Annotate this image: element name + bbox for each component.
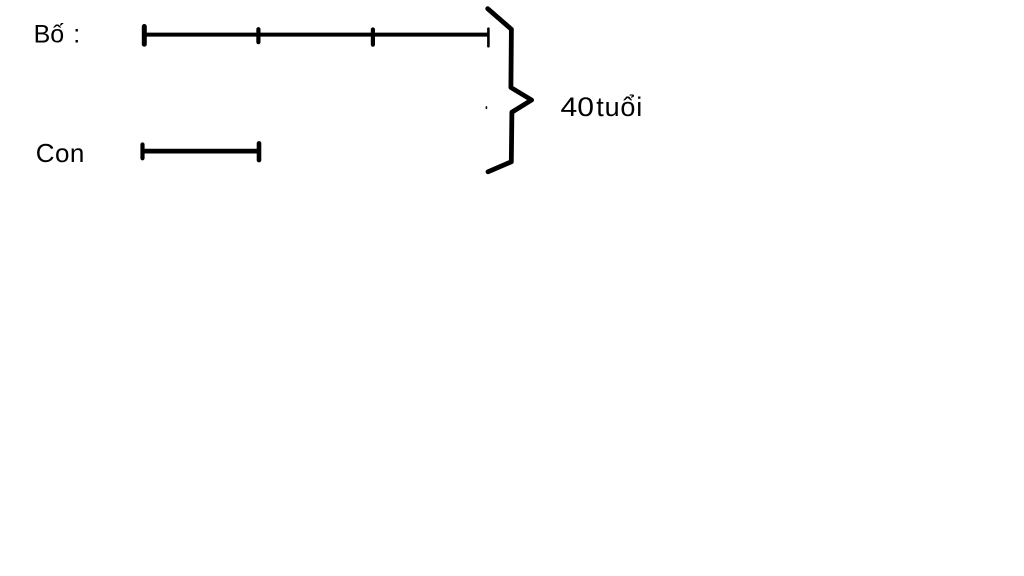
stray dot — [486, 106, 488, 109]
con tick right — [257, 143, 262, 160]
svg-text:tuổi: tuổi — [596, 92, 643, 122]
con bar wire — [143, 149, 260, 154]
father bar wire — [144, 33, 489, 37]
brace for 40 tuoi — [488, 9, 532, 172]
con tick left — [140, 145, 144, 159]
father tick 4 end — [487, 29, 490, 47]
svg-text::: : — [73, 21, 80, 49]
svg-text:40: 40 — [561, 92, 595, 122]
father tick 3 — [371, 30, 375, 45]
father tick 2 — [256, 29, 260, 42]
father tick 1 — [142, 27, 147, 45]
svg-text:Bố: Bố — [34, 21, 65, 49]
svg-text:Con: Con — [36, 138, 85, 168]
